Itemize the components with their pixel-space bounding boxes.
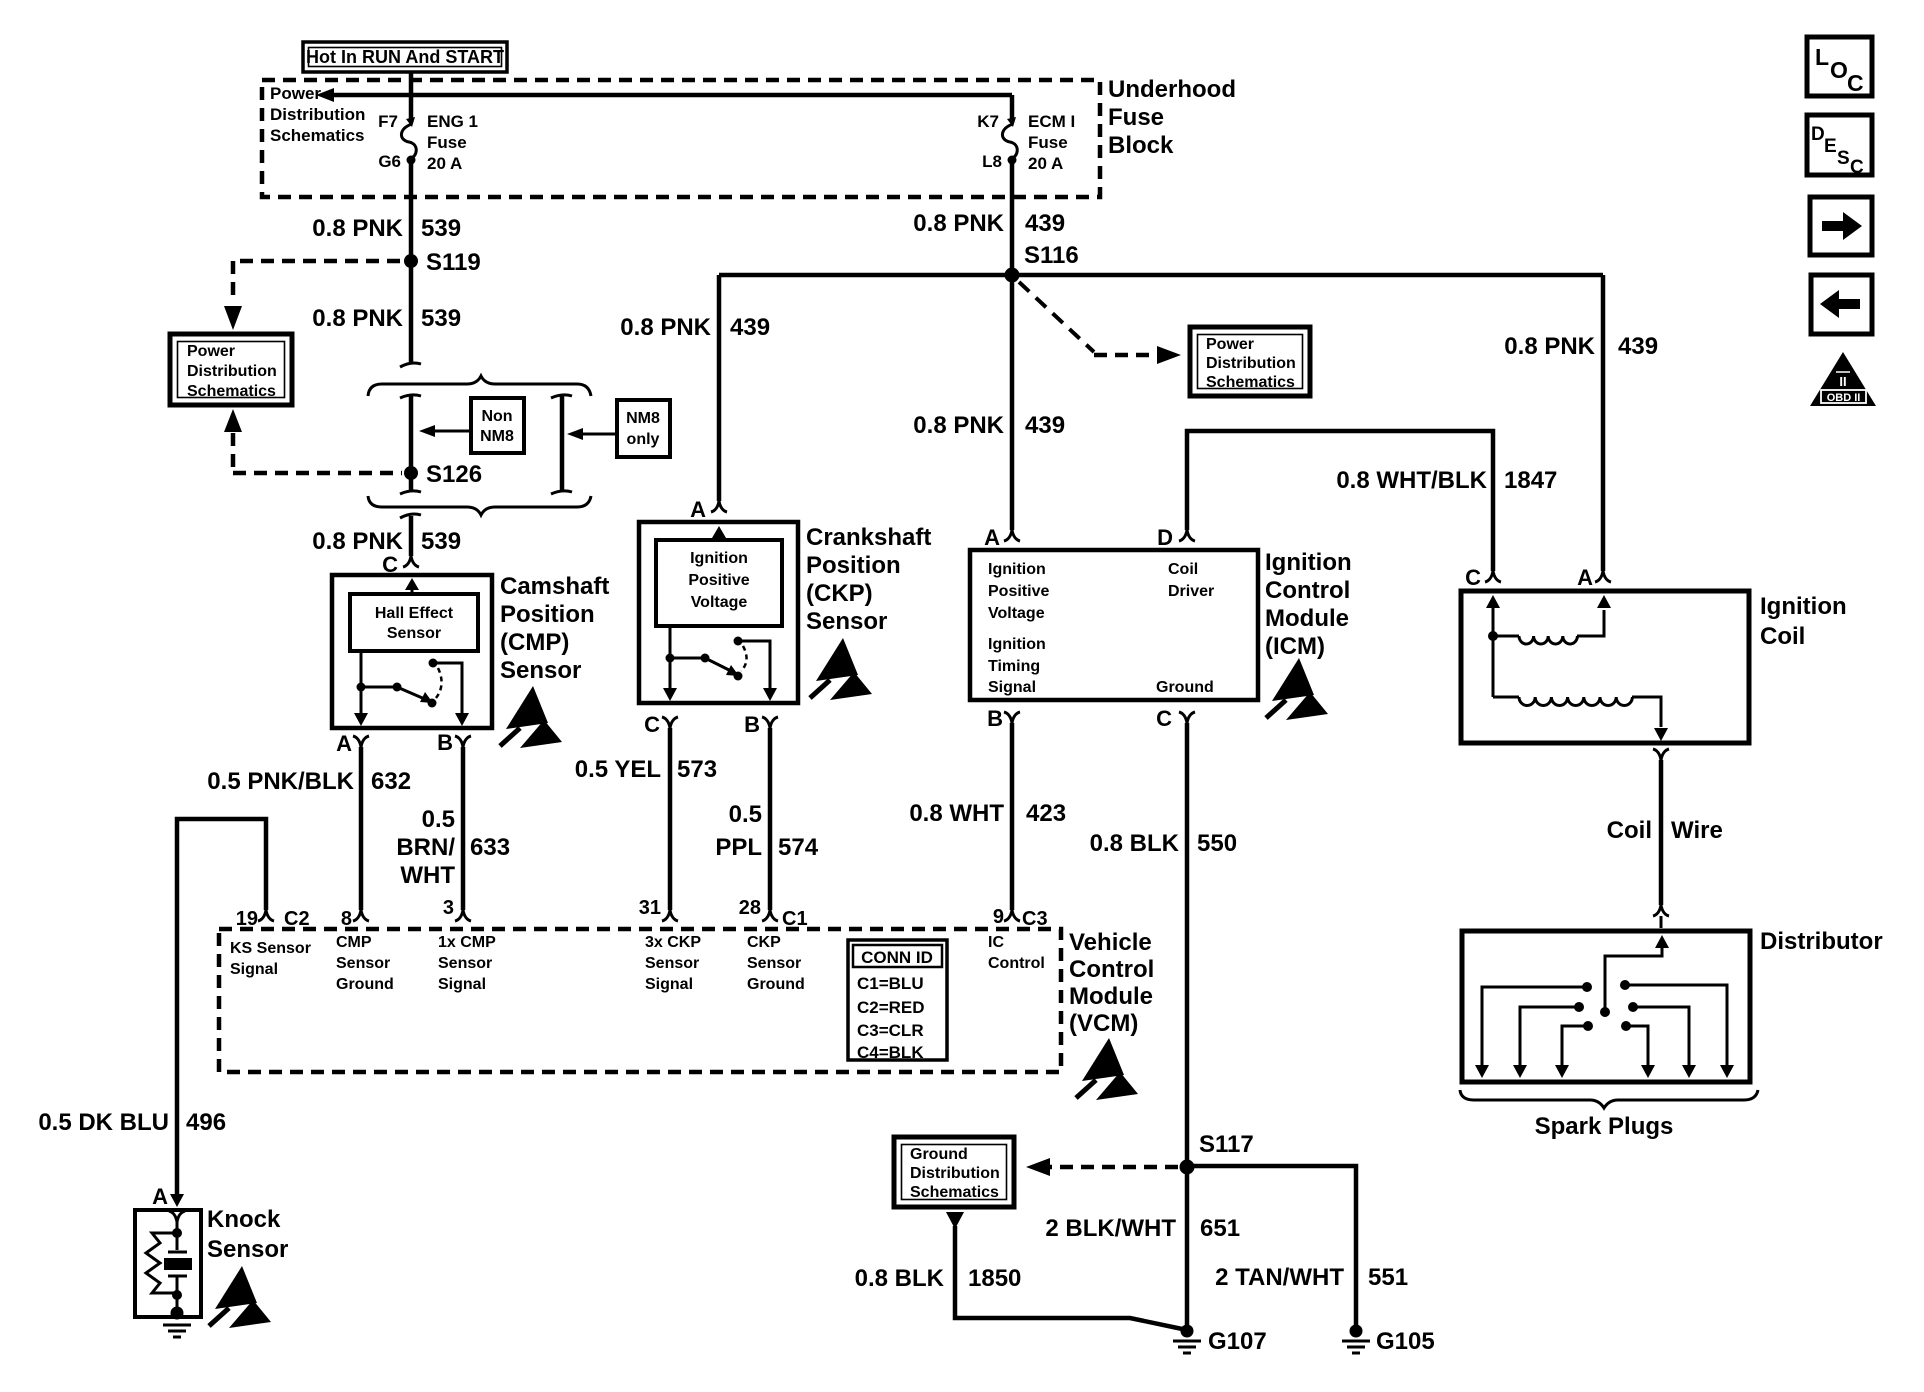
svg-text:632: 632 — [371, 768, 411, 795]
svg-text:WHT: WHT — [400, 862, 455, 889]
distributor rotor feed — [1600, 935, 1669, 1017]
svg-text:OBD II: OBD II — [1827, 392, 1861, 404]
ground G107 — [1173, 1325, 1267, 1356]
CMP switch mechanism — [354, 651, 469, 726]
svg-text:31: 31 — [639, 897, 661, 919]
svg-text:0.8 PNK: 0.8 PNK — [312, 215, 403, 242]
distributor cap contacts and plug wires — [1475, 980, 1734, 1078]
svg-text:Distribution: Distribution — [187, 363, 277, 380]
arrow Non NM8 to wire — [419, 425, 471, 437]
knock sensor ground — [163, 1307, 191, 1338]
svg-text:S126: S126 — [426, 461, 482, 488]
splice S119 — [404, 249, 481, 276]
svg-text:8: 8 — [341, 908, 352, 930]
label Vehicle Control Module (VCM) — [1069, 929, 1154, 1037]
svg-text:0.8 WHT/BLK: 0.8 WHT/BLK — [1336, 467, 1487, 494]
label 0.8 PNK 539 (upper) — [312, 215, 461, 242]
svg-text:Control: Control — [1069, 956, 1154, 983]
svg-text:(CMP): (CMP) — [500, 629, 569, 656]
knock sensor box — [135, 1210, 201, 1317]
wire Ground Distribution Schematics to G107 — [946, 1212, 1187, 1330]
svg-text:Underhood: Underhood — [1108, 76, 1236, 103]
knock sensor internals — [146, 1211, 192, 1311]
svg-text:G105: G105 — [1376, 1328, 1435, 1355]
svg-text:Schematics: Schematics — [1206, 374, 1295, 391]
svg-text:B: B — [437, 730, 453, 755]
label 0.8 PNK 439 (upper) — [913, 210, 1065, 237]
svg-text:Hall Effect: Hall Effect — [375, 605, 454, 622]
svg-text:3: 3 — [443, 897, 454, 919]
label 0.8 WHT/BLK 1847 — [1336, 467, 1557, 494]
label Ignition Coil — [1760, 593, 1847, 650]
svg-text:Camshaft: Camshaft — [500, 573, 609, 600]
svg-text:CMP: CMP — [336, 934, 372, 951]
wire ICM B to pin 9 — [1010, 723, 1015, 910]
svg-text:Ignition: Ignition — [988, 636, 1046, 653]
label Camshaft Position (CMP) Sensor — [500, 573, 609, 684]
pin A connector CMP — [336, 731, 369, 756]
Underhood Fuse Block dashed box — [262, 80, 1100, 197]
sidebar icon arrow left — [1811, 275, 1872, 334]
label 0.8 WHT 423 — [909, 800, 1066, 827]
svg-text:A: A — [336, 731, 352, 756]
svg-text:Signal: Signal — [645, 976, 693, 993]
fuse K7/L8 ECM I Fuse 20 A — [977, 95, 1075, 173]
label 0.8 PNK 439 (to coil) — [1504, 333, 1658, 360]
CMP sensor outer box — [332, 575, 492, 728]
svg-text:Ground: Ground — [910, 1146, 968, 1163]
svg-text:KS Sensor: KS Sensor — [230, 940, 311, 957]
svg-text:O: O — [1830, 57, 1848, 83]
wire S116 down to ICM A — [1010, 275, 1015, 530]
svg-text:Sensor: Sensor — [806, 608, 887, 635]
VCM pin connectors row — [236, 908, 310, 930]
pin A connector CKP — [690, 497, 727, 522]
label 2 BLK/WHT 651 — [1045, 1215, 1240, 1242]
label 0.5 DK BLU 496 — [38, 1109, 226, 1136]
svg-text:Position: Position — [500, 601, 595, 628]
label 0.8 PNK 439 (to ICM) — [913, 412, 1065, 439]
svg-text:3x CKP: 3x CKP — [645, 934, 701, 951]
svg-text:Signal: Signal — [438, 976, 486, 993]
svg-text:Schematics: Schematics — [910, 1184, 999, 1201]
svg-text:Driver: Driver — [1168, 583, 1214, 600]
svg-text:C: C — [1847, 70, 1864, 96]
svg-text:ENG 1: ENG 1 — [427, 112, 478, 131]
svg-text:Coil: Coil — [1607, 817, 1652, 844]
svg-text:IC: IC — [988, 934, 1004, 951]
fuse F7/G6 ENG 1 Fuse 20 A — [378, 112, 478, 173]
svg-text:2 TAN/WHT: 2 TAN/WHT — [1215, 1264, 1344, 1291]
label 0.8 PNK 539 (second) — [312, 305, 461, 332]
svg-text:Control: Control — [1265, 577, 1350, 604]
arrow CKP inner box to A pin — [712, 526, 726, 540]
svg-text:CKP: CKP — [747, 934, 781, 951]
svg-text:Signal: Signal — [230, 961, 278, 978]
wire S116 right branch down to coil A — [1601, 275, 1606, 571]
box Power Distribution Schematics (right) — [1190, 327, 1310, 396]
svg-text:0.8 BLK: 0.8 BLK — [855, 1265, 945, 1292]
Hot In RUN And START box — [303, 42, 507, 72]
svg-text:Timing: Timing — [988, 658, 1040, 675]
VCM dashed box — [219, 929, 1061, 1072]
distributor input connector — [1653, 905, 1669, 916]
wire NM8-only branch — [551, 395, 572, 494]
sidebar icon OBD II triangle — [1810, 352, 1876, 406]
svg-text:Hot In RUN And START: Hot In RUN And START — [306, 47, 504, 67]
box Ground Distribution Schematics — [894, 1137, 1014, 1207]
svg-text:Ignition: Ignition — [1760, 593, 1847, 620]
spark plugs brace — [1460, 1090, 1758, 1108]
wire from Hot box down — [409, 72, 414, 122]
CKP inner box Ignition Positive Voltage — [656, 540, 782, 626]
ESD symbol knock — [209, 1266, 271, 1328]
svg-text:C: C — [1850, 157, 1864, 178]
svg-text:Positive: Positive — [988, 583, 1049, 600]
svg-text:1x CMP: 1x CMP — [438, 934, 496, 951]
pin A connector coil — [1577, 565, 1611, 590]
ESD symbol CMP — [500, 686, 562, 748]
svg-text:G107: G107 — [1208, 1328, 1267, 1355]
svg-text:19: 19 — [236, 908, 258, 930]
svg-text:496: 496 — [186, 1109, 226, 1136]
CKP sensor outer box — [639, 522, 798, 703]
ESD symbol ICM — [1266, 658, 1328, 720]
svg-text:20 A: 20 A — [427, 154, 462, 173]
svg-text:Fuse: Fuse — [1028, 133, 1068, 152]
svg-text:1847: 1847 — [1504, 467, 1557, 494]
svg-text:Sensor: Sensor — [438, 955, 492, 972]
label 0.8 PNK 439 (to CKP) — [620, 314, 770, 341]
svg-text:Position: Position — [806, 552, 901, 579]
label 0.5 BRN/WHT 633 — [396, 806, 510, 889]
svg-text:0.5 YEL: 0.5 YEL — [575, 756, 661, 783]
label 0.8 BLK 1850 — [855, 1265, 1022, 1292]
label Knock Sensor — [207, 1206, 288, 1263]
wire CKP B to pin 28 — [768, 728, 773, 910]
svg-text:28: 28 — [739, 897, 761, 919]
svg-text:B: B — [744, 712, 760, 737]
svg-text:551: 551 — [1368, 1264, 1408, 1291]
svg-text:CONN ID: CONN ID — [861, 948, 933, 967]
wire CMP B to pin 3 — [461, 747, 466, 910]
wire CMP A to pin 8 — [359, 747, 364, 910]
svg-text:423: 423 — [1026, 800, 1066, 827]
svg-text:Coil: Coil — [1760, 623, 1805, 650]
svg-text:(VCM): (VCM) — [1069, 1010, 1138, 1037]
label Power Distribution Schematics (in fuse block) — [270, 84, 365, 145]
label 0.5 PPL 574 — [715, 801, 818, 861]
svg-text:C: C — [644, 712, 660, 737]
svg-text:0.8 PNK: 0.8 PNK — [312, 305, 403, 332]
svg-text:S: S — [1837, 148, 1850, 169]
svg-text:Distribution: Distribution — [1206, 355, 1296, 372]
svg-text:651: 651 — [1200, 1215, 1240, 1242]
pin C connector ICM — [1156, 706, 1195, 731]
svg-text:Power: Power — [1206, 336, 1254, 353]
svg-text:BRN/: BRN/ — [396, 834, 455, 861]
svg-text:Sensor: Sensor — [207, 1236, 288, 1263]
svg-text:Ignition: Ignition — [988, 561, 1046, 578]
svg-text:only: only — [627, 431, 660, 448]
svg-text:573: 573 — [677, 756, 717, 783]
svg-text:Module: Module — [1069, 983, 1153, 1010]
svg-text:0.8 PNK: 0.8 PNK — [620, 314, 711, 341]
svg-text:Control: Control — [988, 955, 1045, 972]
svg-text:633: 633 — [470, 834, 510, 861]
svg-text:Block: Block — [1108, 132, 1174, 159]
pin D connector ICM — [1157, 525, 1195, 550]
svg-text:A: A — [1577, 565, 1593, 590]
svg-text:Fuse: Fuse — [1108, 104, 1164, 131]
svg-text:B: B — [987, 706, 1003, 731]
svg-text:Power: Power — [187, 343, 235, 360]
svg-text:K7: K7 — [977, 112, 999, 131]
svg-text:F7: F7 — [378, 112, 398, 131]
svg-text:Schematics: Schematics — [270, 126, 365, 145]
svg-text:Signal: Signal — [988, 679, 1036, 696]
svg-text:Distribution: Distribution — [270, 105, 365, 124]
coil primary winding — [1486, 595, 1611, 644]
svg-text:C: C — [1156, 706, 1172, 731]
svg-text:0.8 BLK: 0.8 BLK — [1090, 830, 1180, 857]
dashed reference S119 to Power Distribution Schematics — [224, 261, 400, 330]
label 2 TAN/WHT 551 — [1215, 1264, 1408, 1291]
wire fuse to S119 to break — [409, 160, 414, 362]
svg-text:PPL: PPL — [715, 834, 762, 861]
svg-text:0.8 PNK: 0.8 PNK — [913, 412, 1004, 439]
svg-text:L8: L8 — [982, 152, 1002, 171]
CONN ID box — [848, 940, 947, 1062]
svg-text:550: 550 — [1197, 830, 1237, 857]
wire CKP C to pin 31 — [668, 728, 673, 910]
svg-text:Non: Non — [481, 408, 512, 425]
svg-text:0.8 PNK: 0.8 PNK — [1504, 333, 1595, 360]
svg-text:Sensor: Sensor — [336, 955, 390, 972]
svg-text:0.5 DK BLU: 0.5 DK BLU — [38, 1109, 169, 1136]
arrow inner box to C pin — [405, 578, 419, 594]
ground G105 — [1342, 1325, 1435, 1356]
box Non NM8 — [471, 398, 524, 453]
sidebar icon arrow right — [1810, 197, 1872, 255]
svg-text:ECM I: ECM I — [1028, 112, 1075, 131]
svg-text:C3: C3 — [1022, 908, 1048, 930]
pin C connector CKP — [644, 712, 678, 737]
pin A connector ICM — [984, 525, 1020, 550]
box Power Distribution Schematics (left) — [170, 334, 292, 405]
svg-text:Ground: Ground — [747, 976, 805, 993]
label Coil Wire — [1607, 817, 1723, 844]
svg-text:C1: C1 — [782, 908, 808, 930]
svg-text:0.8 WHT: 0.8 WHT — [909, 800, 1004, 827]
label Underhood Fuse Block — [1108, 76, 1236, 159]
wire ICM C to S117 and G107 — [1185, 723, 1190, 1325]
svg-text:A: A — [690, 497, 706, 522]
wire power feed horizontal with left arrow — [316, 88, 1012, 102]
Hall Effect Sensor inner box — [350, 594, 478, 651]
svg-text:Positive: Positive — [688, 572, 749, 589]
Ignition Coil box — [1461, 591, 1749, 743]
svg-text:Schematics: Schematics — [187, 383, 276, 400]
svg-text:Ignition: Ignition — [690, 550, 748, 567]
wire fuse to S116 — [1010, 160, 1015, 275]
box NM8 only — [617, 400, 670, 457]
label 0.8 BLK 550 — [1090, 830, 1237, 857]
svg-text:(ICM): (ICM) — [1265, 633, 1325, 660]
svg-text:0.8 PNK: 0.8 PNK — [913, 210, 1004, 237]
svg-text:NM8: NM8 — [626, 410, 660, 427]
coil output connector — [1653, 749, 1669, 760]
pin B connector ICM — [987, 706, 1020, 731]
svg-text:G6: G6 — [378, 152, 401, 171]
svg-text:C: C — [1465, 565, 1481, 590]
svg-text:0.5 PNK/BLK: 0.5 PNK/BLK — [207, 768, 354, 795]
svg-text:539: 539 — [421, 215, 461, 242]
svg-text:L: L — [1815, 44, 1829, 70]
label Crankshaft Position (CKP) Sensor — [806, 524, 931, 635]
svg-text:Crankshaft: Crankshaft — [806, 524, 931, 551]
svg-text:C2=RED: C2=RED — [857, 998, 925, 1017]
svg-text:0.5: 0.5 — [422, 806, 455, 833]
splice S126 — [404, 461, 482, 488]
svg-text:Distribution: Distribution — [910, 1165, 1000, 1182]
label 0.8 PNK 539 (third) — [312, 528, 461, 555]
svg-text:0.8 PNK: 0.8 PNK — [312, 528, 403, 555]
ESD symbol VCM — [1076, 1038, 1138, 1100]
svg-text:Spark Plugs: Spark Plugs — [1535, 1113, 1674, 1140]
pin B connector CKP — [744, 712, 778, 737]
svg-text:539: 539 — [421, 305, 461, 332]
coil wire to distributor — [1659, 760, 1664, 905]
svg-text:1850: 1850 — [968, 1265, 1021, 1292]
svg-text:Fuse: Fuse — [427, 133, 467, 152]
svg-text:S116: S116 — [1024, 242, 1079, 269]
svg-text:Sensor: Sensor — [387, 625, 441, 642]
ICM box — [970, 550, 1258, 700]
svg-text:A: A — [152, 1184, 168, 1209]
splice S116 — [1005, 242, 1079, 283]
svg-text:D: D — [1811, 124, 1825, 145]
svg-text:574: 574 — [778, 834, 819, 861]
VCM pin function labels — [230, 940, 311, 978]
svg-text:II: II — [1839, 374, 1846, 389]
svg-text:Sensor: Sensor — [500, 657, 581, 684]
svg-text:Vehicle: Vehicle — [1069, 929, 1152, 956]
svg-text:C3=CLR: C3=CLR — [857, 1021, 924, 1040]
wire ICM D up and over to coil C — [1187, 431, 1493, 571]
CKP switch mechanism — [663, 626, 777, 701]
svg-text:Sensor: Sensor — [747, 955, 801, 972]
label 0.5 PNK/BLK 632 — [207, 768, 411, 795]
svg-text:Ignition: Ignition — [1265, 549, 1352, 576]
svg-text:Power: Power — [270, 84, 321, 103]
svg-text:C2: C2 — [284, 908, 310, 930]
svg-text:D: D — [1157, 525, 1173, 550]
svg-text:C1=BLU: C1=BLU — [857, 974, 924, 993]
brace bottom — [368, 496, 591, 515]
brace top — [368, 376, 591, 396]
arrow NM8 only to wire — [567, 428, 617, 440]
svg-text:NM8: NM8 — [480, 428, 514, 445]
svg-text:439: 439 — [1025, 210, 1065, 237]
svg-text:9: 9 — [993, 906, 1004, 928]
wire non-NM8 branch with S126 — [400, 395, 421, 494]
label Ignition Control Module (ICM) — [1265, 549, 1352, 660]
svg-text:Module: Module — [1265, 605, 1349, 632]
ESD symbol CKP — [810, 638, 872, 700]
dashed reference S116 to Power Distribution Schematics (right) — [1019, 282, 1181, 364]
wire S117 to G105 — [1187, 1166, 1356, 1325]
svg-text:Wire: Wire — [1671, 817, 1723, 844]
svg-text:A: A — [984, 525, 1000, 550]
label 0.5 YEL 573 — [575, 756, 717, 783]
svg-text:Ground: Ground — [1156, 679, 1214, 696]
svg-text:Distributor: Distributor — [1760, 928, 1883, 955]
pin C connector at CMP — [382, 552, 419, 577]
splice S117 — [1180, 1131, 1254, 1175]
sidebar icon DESC — [1807, 115, 1872, 178]
sidebar icon LOC — [1807, 37, 1872, 96]
wire S116 horizontal bus — [719, 273, 1603, 278]
svg-text:Coil: Coil — [1168, 561, 1198, 578]
coil secondary winding — [1493, 636, 1668, 741]
svg-text:S119: S119 — [426, 249, 481, 276]
svg-text:(CKP): (CKP) — [806, 580, 873, 607]
Distributor box — [1462, 931, 1750, 1082]
svg-text:439: 439 — [1618, 333, 1658, 360]
svg-text:Voltage: Voltage — [988, 605, 1045, 622]
svg-text:Ground: Ground — [336, 976, 394, 993]
dashed reference box to S126 — [224, 409, 402, 473]
wire break hook (above brace) — [400, 363, 421, 367]
svg-text:20 A: 20 A — [1028, 154, 1063, 173]
svg-text:S117: S117 — [1199, 1131, 1254, 1158]
wire below brace to CMP C — [400, 514, 421, 556]
wire S116 down-left to CKP A — [717, 275, 722, 501]
svg-text:2 BLK/WHT: 2 BLK/WHT — [1045, 1215, 1176, 1242]
svg-text:Knock: Knock — [207, 1206, 281, 1233]
svg-text:0.5: 0.5 — [729, 801, 762, 828]
pin C connector coil — [1465, 565, 1501, 590]
svg-text:Voltage: Voltage — [691, 594, 748, 611]
svg-text:E: E — [1824, 136, 1837, 157]
svg-text:C4=BLK: C4=BLK — [857, 1043, 924, 1062]
knock sensor wire from pin 19 — [177, 819, 266, 1194]
svg-text:439: 439 — [1025, 412, 1065, 439]
pin B connector CMP — [437, 730, 471, 755]
svg-text:439: 439 — [730, 314, 770, 341]
svg-text:539: 539 — [421, 528, 461, 555]
svg-text:Sensor: Sensor — [645, 955, 699, 972]
dashed reference S117 to Ground Distribution Schematics — [1026, 1158, 1178, 1176]
